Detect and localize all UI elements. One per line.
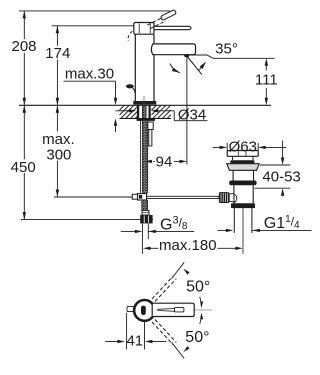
side pin on body [126,84,135,93]
label G3/8 supply thread [121,214,195,233]
faucet spout [151,44,195,55]
svg-text:94: 94 [156,153,173,170]
plug seal band [230,160,254,163]
swing arc upper with arrows [183,269,203,308]
dimension Ø63 flange [213,139,286,156]
flexible supply hose braid [141,121,148,193]
hose braid below fitting [142,200,148,210]
label 35° with leader [187,41,275,59]
reference line max.300 bottom [54,196,133,198]
svg-text:Ø34: Ø34 [178,107,206,124]
deck hatching left [120,105,138,118]
svg-text:41: 41 [126,332,143,349]
drain upper body [233,170,253,180]
pull-rod to hose fitting [132,194,146,200]
aerator outlet [184,54,190,57]
pull rod adjustment knob [219,192,229,203]
plug neck [233,156,253,160]
deck counter-top lines [19,105,271,118]
lever handle (rest position) [154,26,191,29]
label 50° upper [186,279,210,296]
svg-text:450: 450 [11,159,36,176]
svg-text:max.30: max.30 [65,66,114,83]
knob collar and socket [229,194,237,203]
svg-text:208: 208 [11,38,36,55]
faucet base plate [134,101,156,104]
label 50° lower [185,329,209,346]
dimension 208 [11,11,36,105]
lever pivot arc (dashed) [128,31,132,41]
svg-text:40-53: 40-53 [262,168,300,185]
dimension 41 [105,313,166,350]
pop-up rod guide below deck [148,122,153,146]
svg-text:50°: 50° [185,329,209,346]
svg-text:111: 111 [255,71,278,88]
faucet body (top view) [134,300,155,321]
dimension 450 [11,105,36,219]
hose collar [142,210,149,215]
dimension max.180 [143,237,243,254]
horizontal pull rod [147,196,219,198]
svg-text:50°: 50° [186,279,210,296]
faucet body cylinder [135,34,154,101]
G3/8 connection nut [140,215,152,223]
label G1 1/4 drain thread [218,214,312,232]
svg-text:35°: 35° [215,41,238,58]
faucet centerline [143,96,145,119]
lever pivot pill (top view) [141,306,146,316]
svg-text:174: 174 [45,45,70,62]
label max.30 with leader [64,66,118,106]
body tab (top view) [127,307,135,312]
lever swung up 50° (dashed) [152,262,184,301]
lever handle raised (dashed) [148,10,176,28]
dimension 40-53 clamping range [255,140,301,196]
dimension 111 [255,58,278,105]
drain flange band [229,181,256,186]
jet direction line 35° [187,56,202,75]
extension line top of raised lever (208 ref) [19,10,170,12]
dimension 94 [144,153,187,170]
extension line top of lever base (174 ref) [52,25,134,27]
dimension Ø34 hole [116,107,208,124]
pop-up plug head [227,151,258,157]
svg-text:300: 300 [46,146,71,163]
arrow max.30 below deck [114,118,117,132]
swing arc lower with arrows [183,313,203,352]
lever handle (top view) [152,303,194,316]
drain lower seal band [231,203,255,208]
svg-text:Ø63: Ø63 [229,139,257,156]
lever top seam [157,308,184,312]
reference line 450 bottom [21,219,153,221]
lever base cartridge housing [134,23,154,35]
extension line from spout outlet [186,57,188,164]
jet swivel arc left with arrow [170,64,180,73]
G3/8 nipple [142,223,148,253]
dimension 174 [45,26,70,106]
svg-text:max.180: max.180 [159,237,217,254]
lever swung down 50° (dashed) [152,320,184,359]
top view centerline [193,309,213,311]
drain tailpipe G1 1/4 [234,208,252,254]
mounting washer [137,119,155,121]
jet swivel arc right with arrow [198,62,206,71]
dimension max.300 [42,105,75,197]
threaded shank [137,105,150,118]
deck hatching right [152,105,171,118]
basin flange (rosette) [227,164,259,171]
drain lower body [234,185,253,203]
